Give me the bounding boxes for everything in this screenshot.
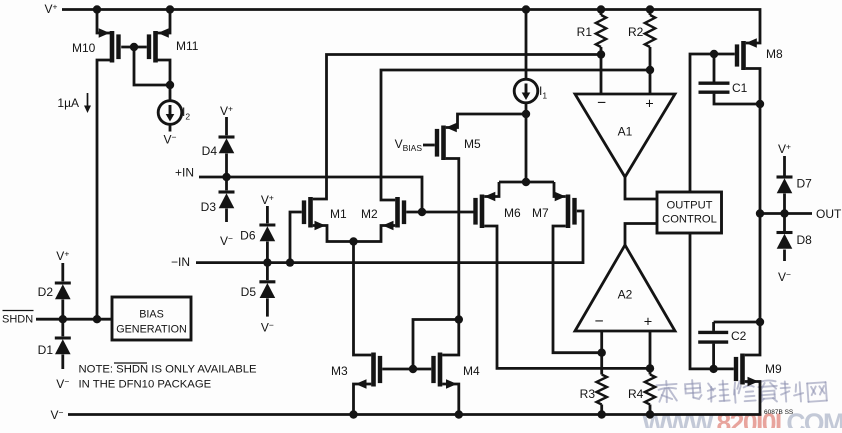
svg-text:M1: M1	[330, 207, 347, 221]
svg-text:CONTROL: CONTROL	[662, 214, 717, 226]
svg-text:R2: R2	[628, 25, 644, 39]
svg-text:D3: D3	[201, 200, 217, 214]
svg-text:D6: D6	[240, 229, 256, 243]
svg-text:D2: D2	[38, 285, 54, 299]
svg-text:R4: R4	[628, 387, 644, 401]
svg-text:R1: R1	[577, 25, 593, 39]
svg-text:1µA: 1µA	[57, 96, 79, 110]
svg-text:C2: C2	[731, 329, 747, 343]
svg-text:−IN: −IN	[171, 255, 190, 269]
svg-text:BIAS: BIAS	[139, 309, 164, 321]
svg-text:D8: D8	[797, 233, 813, 247]
svg-text:D4: D4	[202, 144, 218, 158]
svg-text:IN THE DFN10 PACKAGE: IN THE DFN10 PACKAGE	[79, 379, 212, 391]
svg-text:NOTE: SHDN IS ONLY AVAILABLE: NOTE: SHDN IS ONLY AVAILABLE	[79, 364, 258, 376]
svg-text:A2: A2	[618, 288, 633, 302]
svg-text:C1: C1	[732, 81, 748, 95]
svg-text:A1: A1	[618, 125, 633, 139]
svg-text:D7: D7	[797, 177, 813, 191]
svg-text:M2: M2	[361, 207, 378, 221]
svg-text:M10: M10	[72, 41, 96, 55]
svg-text:+: +	[644, 315, 652, 331]
svg-text:M3: M3	[331, 364, 348, 378]
svg-text:M6: M6	[504, 206, 521, 220]
svg-text:R3: R3	[580, 387, 596, 401]
svg-text:D5: D5	[241, 285, 257, 299]
svg-text:+: +	[645, 97, 653, 113]
svg-text:GENERATION: GENERATION	[116, 324, 187, 336]
svg-text:−: −	[594, 313, 603, 330]
svg-text:M11: M11	[176, 39, 199, 53]
svg-text:D1: D1	[38, 343, 54, 357]
svg-text:SHDN: SHDN	[2, 314, 33, 326]
svg-text:OUTPUT: OUTPUT	[667, 200, 713, 212]
svg-text:M9: M9	[765, 362, 782, 376]
svg-text:+IN: +IN	[175, 166, 194, 180]
svg-text:M7: M7	[532, 206, 549, 220]
svg-text:M4: M4	[463, 364, 480, 378]
svg-text:−: −	[597, 95, 606, 112]
svg-text:M5: M5	[464, 137, 481, 151]
svg-text:M8: M8	[766, 47, 783, 61]
svg-text:OUT: OUT	[816, 207, 842, 221]
svg-text:WWW.820I0I.COM: WWW.820I0I.COM	[642, 408, 842, 428]
svg-text:6087B SS: 6087B SS	[764, 409, 794, 416]
